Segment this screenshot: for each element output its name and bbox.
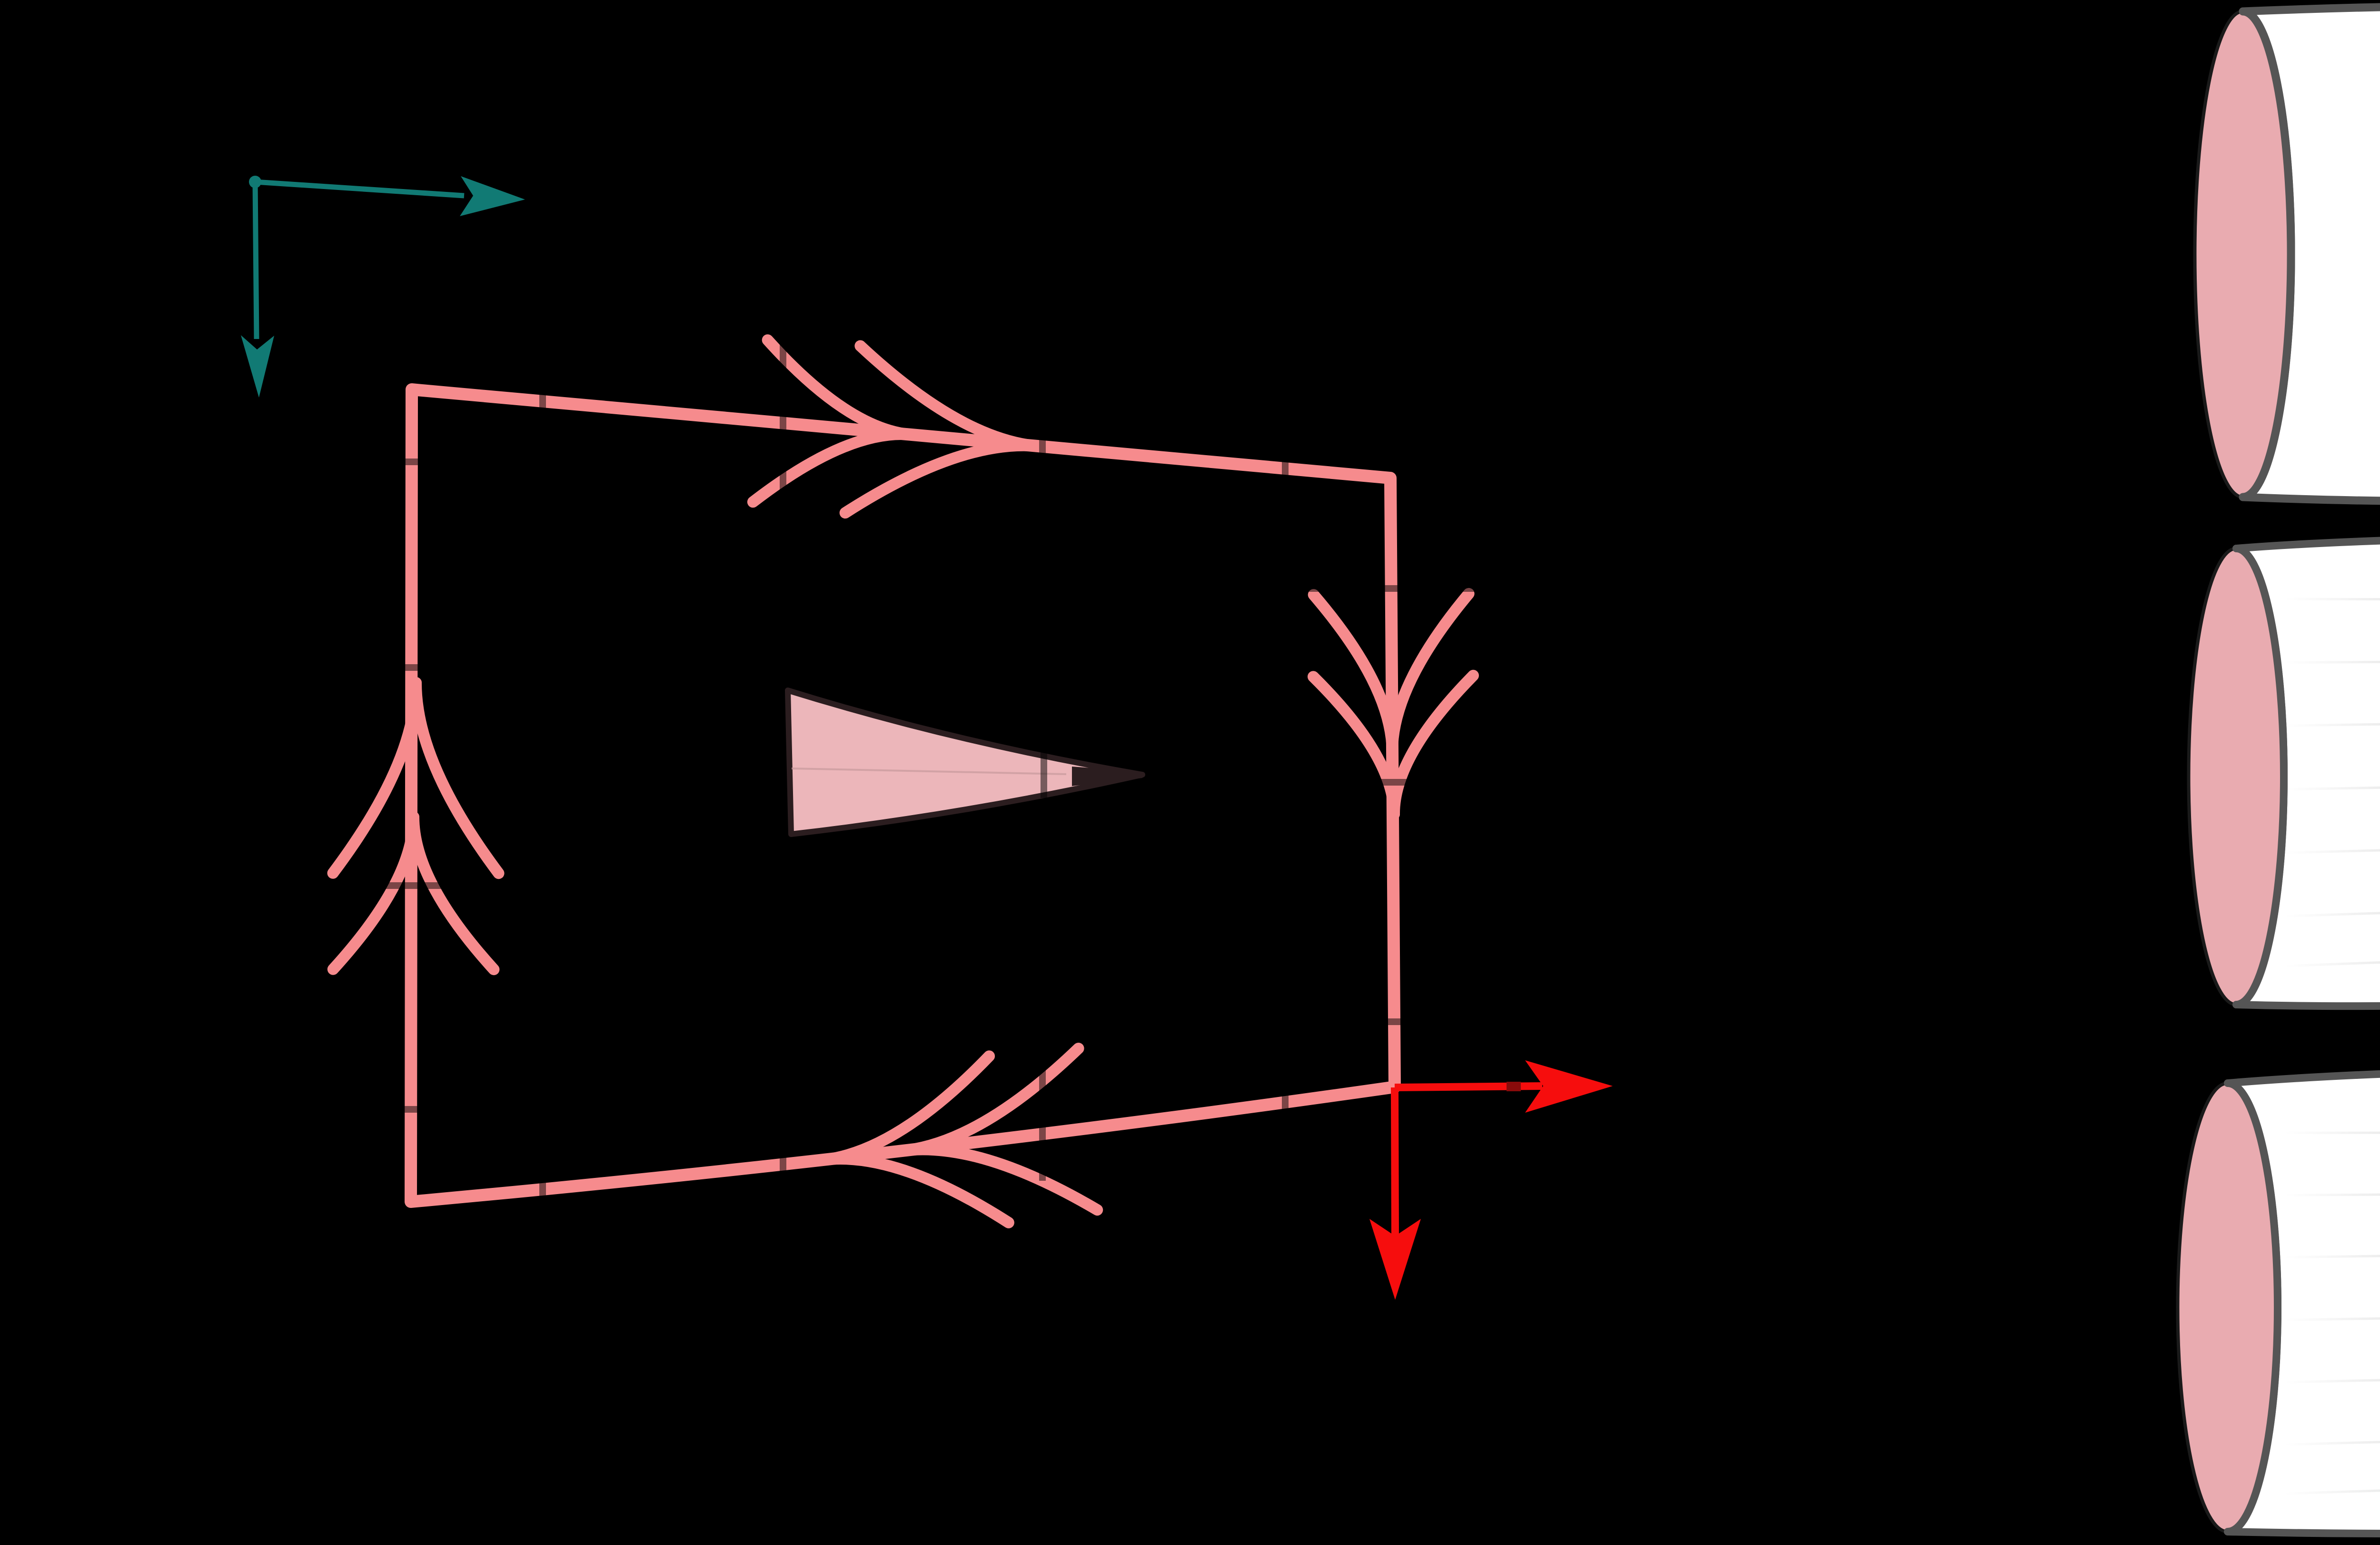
node: red x-axis arrow at loop corner: [1395, 1086, 1542, 1087]
wire: left edge double chevron arrow (upward): [414, 817, 494, 969]
node: pink end cap of cylinder c1: [2195, 11, 2291, 497]
node: pink end cap of cylinder c4: [2178, 1083, 2278, 1532]
wire: right edge double chevron arrow (downward): [1314, 595, 1392, 752]
wire: outline arc over cap of c2: [2236, 548, 2284, 1005]
node: red y-axis arrow at loop corner: [1395, 1087, 1395, 1238]
node: cylinder c2 body (white, gray outline): [2236, 537, 2380, 1006]
wire: outline arc over cap of c1: [2243, 11, 2291, 497]
wire: pink boundary loop of fundamental domain: [411, 389, 1395, 1202]
wire: outline arc over cap of c4: [2228, 1083, 2278, 1532]
node: teal vertical axis arrow: [255, 182, 257, 339]
node: dark cusp tail of triangle: [1072, 767, 1142, 786]
node: slit midline inside triangle: [792, 768, 1066, 774]
node: underlying black tick grid (visible only over pink): [309, 300, 1480, 1214]
wire: bottom edge double chevron arrow (leftward): [904, 1048, 1079, 1151]
node: cusp triangle (slit) in fundamental domain: [788, 690, 1142, 834]
wire: horizontal grid lines of c4: [2228, 1127, 2380, 1133]
wire: horizontal grid lines of c2: [2236, 594, 2380, 599]
node: cylinder c4 body (white, gray outline): [2228, 1069, 2380, 1534]
node: cylinder c1 body (white, gray outline): [2243, 4, 2380, 501]
node: pink end cap of cylinder c2: [2189, 548, 2284, 1005]
node: teal horizontal axis arrow: [255, 182, 464, 196]
node: dark tick on red x-axis: [1507, 1082, 1521, 1091]
wire: horizontal grid lines of c1: [2243, 60, 2380, 69]
node: teal axes origin dot: [249, 176, 261, 188]
wire: top edge double chevron arrow (rightward): [753, 434, 911, 502]
